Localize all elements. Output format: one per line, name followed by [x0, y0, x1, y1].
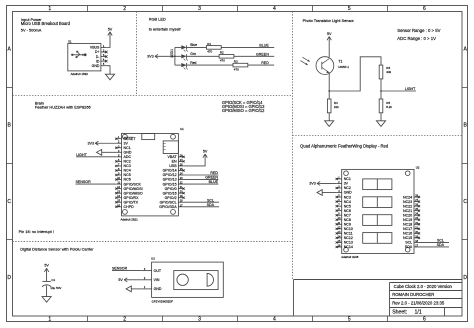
- LED Grn: [175, 52, 196, 61]
- svg-text:RGB LED: RGB LED: [149, 16, 166, 21]
- svg-text:5V: 5V: [118, 278, 123, 282]
- svg-text:R5: R5: [386, 101, 390, 105]
- title block: [294, 280, 463, 317]
- svg-text:HW5P-1: HW5P-1: [338, 65, 349, 69]
- module U1 Feather HUZZAH ESP8266 Adafruit 2821: [121, 127, 185, 221]
- svg-text:GPIO/15: GPIO/15: [163, 182, 177, 186]
- svg-text:NC8: NC8: [344, 218, 351, 222]
- wire R3 to label RED: [248, 64, 274, 66]
- svg-text:6: 6: [423, 317, 426, 323]
- power 5V photo sensor: [327, 32, 332, 41]
- svg-text:Grn: Grn: [190, 52, 196, 56]
- svg-text:C: C: [7, 199, 11, 205]
- svg-text:NC22: NC22: [403, 204, 412, 208]
- svg-text:GPIO/SCK: GPIO/SCK: [124, 182, 142, 186]
- svg-text:NC16: NC16: [403, 232, 412, 236]
- svg-text:U2: U2: [416, 165, 420, 169]
- svg-text:BLUE: BLUE: [209, 180, 219, 184]
- svg-text:3V3: 3V3: [147, 55, 154, 59]
- wire VBUS to 5V: [106, 36, 110, 48]
- svg-text:SDA: SDA: [207, 203, 215, 207]
- svg-text:NC9: NC9: [344, 222, 351, 226]
- svg-text:3: 3: [198, 317, 201, 323]
- svg-text:NC6: NC6: [124, 178, 131, 182]
- svg-text:NC6: NC6: [344, 209, 351, 213]
- svg-text:Photo Transistor Light Sensor: Photo Transistor Light Sensor: [303, 18, 355, 23]
- svg-text:GND: GND: [344, 191, 352, 195]
- svg-text:R2: R2: [220, 51, 224, 55]
- svg-text:3: 3: [198, 6, 201, 12]
- svg-text:X1: X1: [68, 39, 72, 43]
- svg-text:5: 5: [348, 317, 351, 323]
- ground symbol below X1: [105, 74, 114, 80]
- svg-text:1: 1: [48, 317, 51, 323]
- svg-text:BLUE: BLUE: [259, 44, 269, 48]
- svg-text:GPIO/RX: GPIO/RX: [124, 196, 140, 200]
- svg-text:Red: Red: [190, 61, 196, 65]
- svg-text:NC13: NC13: [344, 241, 353, 245]
- power 5V above X1: [108, 27, 113, 36]
- svg-text:Sensor Range : 0 > 5V: Sensor Range : 0 > 5V: [397, 28, 440, 33]
- svg-text:NC4: NC4: [344, 200, 351, 204]
- svg-text:ROMAIN DUROCHER: ROMAIN DUROCHER: [392, 292, 434, 297]
- section title Brain: [35, 101, 91, 110]
- svg-text:5V: 5V: [203, 149, 208, 153]
- wire T1 emitter to node: [328, 75, 330, 92]
- svg-text:U1: U1: [180, 127, 184, 131]
- ground below R5: [376, 113, 385, 127]
- svg-text:D: D: [7, 275, 11, 281]
- wire R1 to label BLUE: [221, 46, 274, 48]
- svg-text:Sheet:: Sheet:: [392, 310, 407, 316]
- svg-text:6: 6: [423, 6, 426, 12]
- svg-text:GPIO/0: GPIO/0: [165, 187, 177, 191]
- svg-text:T1: T1: [338, 60, 342, 64]
- no-connect X marks on D+ D- ID: [105, 51, 108, 54]
- svg-text:Adafruit 3108: Adafruit 3108: [341, 255, 359, 259]
- svg-text:to entertain myself: to entertain myself: [149, 26, 182, 31]
- svg-text:GND: GND: [124, 151, 132, 155]
- USB trident icon: [71, 51, 86, 58]
- svg-text:1: 1: [48, 6, 51, 12]
- svg-text:C: C: [463, 199, 467, 205]
- svg-text:Blue: Blue: [190, 43, 197, 47]
- svg-text:33k: 33k: [386, 70, 391, 74]
- net label BLUE wire U1 GPIO/15: [184, 180, 219, 184]
- wire to LIGHT label: [381, 90, 416, 92]
- wire GND down: [106, 66, 110, 75]
- svg-text:SCL: SCL: [437, 239, 444, 243]
- svg-text:NC10: NC10: [344, 227, 353, 231]
- svg-text:NC1: NC1: [344, 177, 351, 181]
- svg-text:CHPD: CHPD: [124, 205, 135, 209]
- resistor R2 470: [219, 51, 234, 63]
- transistor T1 HW5P-1 phototransistor: [316, 57, 349, 75]
- svg-text:GPIO/MISO: GPIO/MISO: [124, 191, 143, 195]
- svg-text:SDA: SDA: [405, 245, 413, 249]
- section title RGB LED: [149, 16, 182, 31]
- ground below C1: [42, 297, 51, 303]
- resistor R4 22k: [327, 91, 339, 113]
- net label SDA wire U2: [419, 243, 449, 247]
- wire LED Grn to R2: [187, 55, 220, 57]
- display digit boxes: [363, 179, 392, 243]
- wire 5V to T1 collector: [328, 40, 330, 57]
- svg-text:RED: RED: [210, 171, 218, 175]
- svg-text:NC5: NC5: [124, 173, 131, 177]
- svg-text:GPIO/SDA: GPIO/SDA: [159, 205, 177, 209]
- capacitor C1 10u 50V polarized: [42, 278, 61, 290]
- svg-text:Digital Distance Sensor with P: Digital Distance Sensor with Pololu Carr…: [20, 247, 94, 252]
- svg-text:2: 2: [123, 6, 126, 12]
- svg-text:Rev 2.0 - 21/08/2020 23:35: Rev 2.0 - 21/08/2020 23:35: [392, 301, 445, 306]
- power 3V3 to U2 pin 2: [309, 181, 336, 185]
- ground below R4: [325, 113, 334, 127]
- svg-text:Adafruit 1833: Adafruit 1833: [71, 72, 89, 76]
- svg-text:22k: 22k: [334, 105, 339, 109]
- svg-text:SCL: SCL: [405, 241, 412, 245]
- ground arrow U1 pin 4: [97, 149, 117, 155]
- svg-text:NC7: NC7: [344, 213, 351, 217]
- wire C1 to ground: [46, 286, 48, 297]
- svg-text:R1: R1: [207, 42, 211, 46]
- svg-text:5V: 5V: [108, 27, 113, 31]
- resistor R6 33k: [379, 65, 391, 79]
- svg-text:GPIO/SCL: GPIO/SCL: [160, 200, 177, 204]
- U1 right pins: [159, 154, 183, 209]
- connector X1 Micro USB breakout Adafruit 1833: [68, 39, 107, 76]
- svg-text:3V3: 3V3: [87, 142, 94, 146]
- U1 no-connect marks left: [115, 138, 117, 140]
- net label SDA wire U1 GPIO/SDA: [184, 203, 220, 207]
- svg-text:GP2Y0D805Z0F: GP2Y0D805Z0F: [152, 299, 174, 303]
- svg-text:VIN: VIN: [154, 278, 160, 282]
- U3 pins: [142, 268, 162, 291]
- svg-text:GPIO/13: GPIO/13: [163, 178, 177, 182]
- svg-text:R6: R6: [386, 66, 390, 70]
- net label SCL wire U2: [419, 239, 449, 243]
- ground arrow U2 pin 4: [317, 190, 337, 196]
- wire R2 to label GREEN: [234, 55, 274, 57]
- svg-text:NC3: NC3: [344, 195, 351, 199]
- junction LIGHT node: [380, 90, 382, 92]
- resistor R1 470: [206, 42, 221, 54]
- svg-text:ID: ID: [96, 59, 100, 63]
- svg-text:Adafruit 2821: Adafruit 2821: [121, 217, 139, 221]
- svg-text:10μ 50V: 10μ 50V: [50, 286, 61, 290]
- module U3 distance sensor GP2Y0D805Z0F: [151, 257, 223, 304]
- svg-text:LED1: LED1: [170, 49, 174, 58]
- svg-text:SENSOR: SENSOR: [112, 267, 128, 271]
- svg-text:D+: D+: [95, 50, 100, 54]
- wire 3V3 to LED bus: [158, 55, 175, 57]
- U1 left pins: [116, 136, 143, 209]
- svg-text:GPIO/12: GPIO/12: [163, 173, 177, 177]
- power 5V to U1 USB pin: [184, 149, 208, 166]
- svg-text:VBAT: VBAT: [167, 155, 177, 159]
- svg-text:ADC: ADC: [124, 155, 132, 159]
- svg-text:5V: 5V: [44, 264, 49, 268]
- svg-text:4: 4: [273, 317, 276, 323]
- svg-text:NC21: NC21: [403, 209, 412, 213]
- net label SENSOR to U3 OUT: [112, 267, 142, 271]
- light arrows into T1: [300, 57, 309, 65]
- junction emitter node: [328, 90, 330, 92]
- svg-text:GPIO/14: GPIO/14: [163, 169, 177, 173]
- svg-text:U3: U3: [151, 257, 155, 261]
- svg-text:GPIO/16: GPIO/16: [163, 191, 177, 195]
- svg-text:LIGHT: LIGHT: [405, 87, 416, 91]
- svg-text:NC12: NC12: [344, 236, 353, 240]
- section title Photo Transistor Light Sensor: [303, 18, 441, 41]
- svg-text:NC4: NC4: [124, 169, 131, 173]
- section title Input Power: [21, 17, 71, 33]
- svg-text:D: D: [463, 275, 467, 281]
- svg-text:5: 5: [348, 6, 351, 12]
- svg-text:GPIO/MOSI: GPIO/MOSI: [124, 187, 143, 191]
- net label RED wire U1 GPIO/12: [184, 171, 219, 175]
- svg-text:NC24: NC24: [403, 195, 412, 199]
- svg-text:NC23: NC23: [403, 200, 412, 204]
- net label GREEN wire U1 GPIO/13: [184, 176, 219, 180]
- svg-text:3V: 3V: [344, 182, 349, 186]
- svg-text:R3: R3: [234, 60, 238, 64]
- svg-text:NC2: NC2: [124, 160, 131, 164]
- svg-text:EN: EN: [172, 160, 177, 164]
- svg-text:SENSOR: SENSOR: [76, 180, 92, 184]
- LED Blue: [175, 43, 197, 52]
- svg-text:Feather HUZZAH with ESP8266: Feather HUZZAH with ESP8266: [35, 105, 91, 110]
- U1 no-connect marks right: [183, 156, 185, 158]
- svg-text:Pin 16: no Interrupt !: Pin 16: no Interrupt !: [19, 229, 54, 234]
- svg-text:3V3: 3V3: [309, 182, 316, 186]
- resistor R5 8.2k: [379, 91, 392, 113]
- power 5V to U3 VIN: [118, 278, 141, 282]
- svg-text:5V: 5V: [327, 32, 332, 36]
- svg-text:2: 2: [123, 317, 126, 323]
- ground arrow U3 GND: [126, 286, 142, 292]
- svg-text:VBUS: VBUS: [90, 46, 100, 50]
- svg-text:NC2: NC2: [344, 186, 351, 190]
- resistor R3 470: [233, 60, 248, 72]
- svg-text:GPIO/TX: GPIO/TX: [124, 200, 139, 204]
- svg-text:1/1: 1/1: [415, 310, 422, 316]
- svg-text:NC19: NC19: [403, 218, 412, 222]
- svg-text:NC15: NC15: [403, 236, 412, 240]
- svg-text:GREEN: GREEN: [205, 176, 218, 180]
- net label SENSOR to U1 GPIO/SCK: [76, 180, 117, 184]
- power 3V3 to U1 pin 2: [87, 141, 116, 145]
- power 5V above C1: [44, 264, 49, 282]
- svg-text:Cube Clock 2.0 - 2020 Version: Cube Clock 2.0 - 2020 Version: [394, 284, 453, 289]
- svg-text:LIGHT: LIGHT: [76, 153, 87, 157]
- svg-text:GPIO/2: GPIO/2: [165, 196, 177, 200]
- svg-text:NC17: NC17: [403, 227, 412, 231]
- svg-text:NC5: NC5: [344, 204, 351, 208]
- svg-text:NC14: NC14: [344, 245, 353, 249]
- svg-text:NC20: NC20: [403, 213, 412, 217]
- svg-text:SDA: SDA: [437, 243, 445, 247]
- svg-text:470: 470: [234, 67, 239, 71]
- svg-text:NC11: NC11: [344, 232, 353, 236]
- note GPIO mapping: [222, 100, 265, 113]
- svg-text:470: 470: [207, 50, 212, 54]
- svg-text:NC18: NC18: [403, 222, 412, 226]
- svg-text:8.2k: 8.2k: [386, 105, 392, 109]
- svg-text:NC1: NC1: [124, 146, 131, 150]
- svg-text:4: 4: [273, 6, 276, 12]
- svg-text:OUT: OUT: [154, 269, 162, 273]
- svg-text:470: 470: [220, 59, 225, 63]
- svg-text:RED: RED: [261, 61, 269, 65]
- svg-text:3V: 3V: [124, 141, 129, 145]
- svg-text:Quad Alphanumeric FeatherWing: Quad Alphanumeric FeatherWing Display - …: [300, 144, 389, 149]
- svg-text:SCL: SCL: [207, 198, 214, 202]
- net label SCL wire U1 GPIO/SCL: [184, 198, 220, 202]
- svg-text:NC3: NC3: [124, 164, 131, 168]
- net label LIGHT to U1 ADC: [76, 153, 116, 157]
- module U2 Quad Alphanumeric FeatherWing Adafruit 3108: [341, 165, 420, 259]
- wire emitter node to R6 loop: [329, 57, 381, 91]
- svg-text:GREEN: GREEN: [256, 52, 269, 56]
- svg-text:R4: R4: [334, 101, 338, 105]
- svg-text:GND: GND: [154, 287, 162, 291]
- wire LED Blue to R1: [187, 46, 207, 48]
- section divider dashed lines: [13, 12, 463, 280]
- U2 right pins: [403, 195, 419, 250]
- svg-text:ADC Range : 0 > 1V: ADC Range : 0 > 1V: [397, 36, 436, 41]
- power 3V3 RGB: [147, 54, 158, 58]
- U2 no-connect marks: [336, 178, 338, 180]
- svg-text:C1: C1: [51, 278, 55, 282]
- svg-text:RESET: RESET: [124, 137, 137, 141]
- U2 left pins: [337, 176, 353, 249]
- svg-text:USB: USB: [169, 164, 177, 168]
- svg-text:GND: GND: [92, 64, 100, 68]
- LED bus vertical wire: [174, 47, 176, 65]
- wire R6 to LIGHT node: [380, 79, 382, 91]
- svg-text:5V - 500mA: 5V - 500mA: [21, 28, 42, 33]
- svg-text:GPIO/MISO = GPIO/12: GPIO/MISO = GPIO/12: [222, 108, 265, 113]
- svg-text:Micro USB Breakout Board: Micro USB Breakout Board: [21, 21, 71, 26]
- wire LED Red to R3: [187, 64, 233, 66]
- LED Red: [175, 61, 197, 70]
